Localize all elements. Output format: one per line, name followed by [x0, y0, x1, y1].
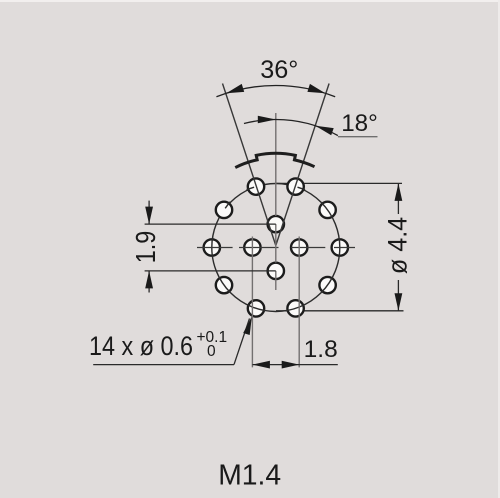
18 deg arrow at angle line	[315, 126, 333, 136]
pin hole +162deg	[287, 300, 303, 316]
1.8 arrow right	[282, 361, 300, 369]
36 deg dimension arc	[216, 85, 335, 96]
centerline tick pin -90	[197, 247, 233, 249]
pin hole +54deg	[319, 202, 335, 218]
pin hole -18deg	[248, 178, 264, 194]
svg-text:ø 4.4: ø 4.4	[384, 217, 413, 274]
centerline tick inner left pin	[239, 247, 279, 249]
extension line bottom (for dia 4.4)	[276, 310, 404, 312]
pin hole -54deg	[216, 202, 232, 218]
svg-text:1.8: 1.8	[304, 336, 338, 363]
vertical center line	[275, 113, 277, 216]
connector shell arc with key notch	[235, 153, 314, 167]
dim line 1.9 top	[145, 223, 276, 225]
svg-text:36°: 36°	[260, 56, 298, 84]
pin hole +90deg	[332, 239, 348, 255]
svg-text:14 x ø 0.6: 14 x ø 0.6	[89, 331, 193, 361]
36 deg arrow left	[226, 84, 244, 93]
arc stub in pin -18	[247, 187, 255, 190]
extension line from inner right pin down	[298, 237, 300, 368]
arc stub in pin -54	[225, 202, 230, 209]
arc stub in pin +18	[298, 187, 306, 190]
1.9 arrow bottom	[145, 271, 153, 289]
extension line top (for dia 4.4)	[276, 182, 402, 184]
pin hole +18deg	[287, 178, 303, 194]
dim line 1.9 bottom	[145, 270, 276, 272]
inner pin hole top	[268, 216, 284, 232]
18 deg leader line	[338, 136, 378, 138]
centerline tick pin +90	[334, 247, 355, 249]
18 deg arrow at centerline	[258, 116, 276, 124]
dia 4.4 arrow bottom	[395, 293, 403, 311]
pin hole +126deg	[319, 277, 335, 293]
36 deg angle line left	[223, 84, 276, 246]
18 deg dimension arc	[244, 119, 338, 135]
dia 4.4 dimension line	[397, 183, 399, 214]
svg-text:1.9: 1.9	[131, 231, 161, 264]
inner pin hole right	[291, 239, 307, 255]
svg-text:18°: 18°	[341, 110, 378, 137]
inner pin hole bottom	[268, 263, 284, 279]
1.9 arrow top	[145, 207, 153, 225]
1.9 dimension arrow line	[148, 201, 150, 225]
1.8 arrow left	[252, 361, 270, 369]
leader arrow at pin	[243, 316, 252, 335]
pin hole -162deg	[248, 300, 264, 316]
pin hole -126deg	[216, 277, 232, 293]
dia 4.4 arrow top	[395, 183, 403, 201]
36 deg arrow right	[307, 84, 325, 93]
svg-text:M1.4: M1.4	[218, 459, 281, 491]
1.8 dimension line	[252, 364, 337, 366]
pin pitch circle	[212, 184, 340, 312]
pin hole -90deg	[204, 239, 220, 255]
extension line from inner left pin down	[251, 237, 253, 368]
centerline tick inner right pin	[291, 247, 325, 249]
leader line 14 x dia 0.6	[93, 364, 234, 366]
inner pin hole left	[244, 239, 260, 255]
svg-text:0: 0	[207, 343, 216, 360]
36 deg angle line right	[276, 84, 329, 246]
